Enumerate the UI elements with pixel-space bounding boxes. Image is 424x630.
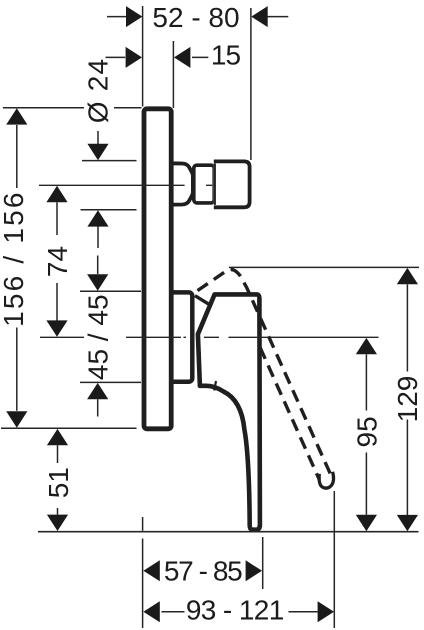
dashed lever far edge (line B, partly hidden behind solid lever) — [236, 294, 320, 480]
svg-text:52 - 80: 52 - 80 — [152, 2, 239, 33]
spout end piece — [214, 161, 250, 207]
svg-text:74: 74 — [42, 246, 73, 277]
lever handle (solid, pointing down) — [198, 294, 260, 529]
spout middle cylinder — [194, 165, 214, 203]
45/45 top reference line — [80, 290, 141, 292]
arrow 129 bottom — [397, 515, 418, 531]
spout joint line — [214, 163, 216, 205]
arrow 45 bottom — [87, 383, 108, 399]
wall plate — [144, 109, 171, 429]
95 dimension line — [365, 354, 367, 514]
45/45 bottom reference line — [80, 381, 141, 383]
svg-text:93 - 121: 93 - 121 — [186, 595, 284, 626]
bath rim line — [38, 531, 419, 533]
plate bottom reference line — [1, 427, 137, 429]
129 dimension line — [406, 284, 408, 515]
129 top reference line — [229, 266, 419, 268]
handle centerline — [40, 336, 379, 338]
svg-text:156 / 156: 156 / 156 — [0, 190, 29, 327]
arrow 52-80 left — [126, 6, 142, 27]
handle joint tick — [214, 381, 216, 391]
arrow 74 top — [46, 186, 67, 202]
svg-text:15: 15 — [211, 39, 241, 70]
arrow 93-121 left — [143, 601, 159, 622]
arrow dia24 top — [87, 144, 108, 160]
arrow 74 bottom — [46, 320, 67, 336]
extension line right x=250.9 top — [250, 8, 252, 160]
dia24 dimension line tails — [97, 131, 99, 248]
extension line x=334.3 (93-121 right) — [333, 491, 335, 628]
svg-text:Ø 24: Ø 24 — [83, 58, 114, 124]
cartridge sleeve — [168, 292, 192, 381]
93-121 dimension tails — [162, 611, 318, 613]
arrow 57-85 right — [246, 560, 262, 581]
extension line x=142.6 bottom — [142, 517, 144, 628]
extension line x=262.7 (57-85 right) — [262, 537, 264, 589]
handle hub slant line — [195, 296, 210, 305]
dashed lever top edge + near edge (line A) — [198, 269, 332, 475]
arrow 15 left — [126, 47, 142, 68]
svg-text:95: 95 — [351, 416, 382, 447]
74 dimension line — [56, 202, 58, 320]
spout centerline — [39, 184, 212, 186]
arrow dia24 bottom — [87, 210, 108, 226]
arrow 93-121 right — [318, 601, 334, 622]
svg-text:129: 129 — [392, 376, 423, 423]
arrow 129 top — [397, 268, 418, 284]
dashed lever tip cap — [319, 472, 333, 488]
svg-text:45 / 45: 45 / 45 — [83, 294, 114, 380]
arrow 57-85 left — [143, 560, 159, 581]
dia24 bottom reference line — [81, 209, 137, 211]
dim row 52-80 tails — [107, 16, 288, 18]
arrow 51 bottom — [47, 515, 68, 531]
arrow 52-80 right — [251, 6, 267, 27]
arrow 51 top — [47, 429, 68, 445]
svg-text:51: 51 — [43, 467, 74, 498]
arrow 95 bottom — [356, 515, 377, 531]
156/156 dimension line — [16, 125, 18, 411]
arrow 15 right — [174, 47, 190, 68]
svg-text:57 - 85: 57 - 85 — [164, 556, 242, 587]
spout connector cone — [171, 163, 193, 204]
arrow 156 bottom — [6, 411, 27, 427]
51 dimension line — [57, 445, 59, 515]
extension line x=173.4 (15) — [172, 41, 174, 108]
arrow 156 top — [6, 108, 27, 124]
extension line left x=142.6 top — [142, 6, 144, 107]
dia24 top reference line — [82, 160, 137, 162]
dim row 15 tails — [106, 56, 209, 58]
156/156 top reference line — [3, 107, 142, 109]
arrow 95 top — [356, 338, 377, 354]
arrow 45 top — [87, 274, 108, 290]
45/45 dimension line tails — [97, 256, 99, 417]
